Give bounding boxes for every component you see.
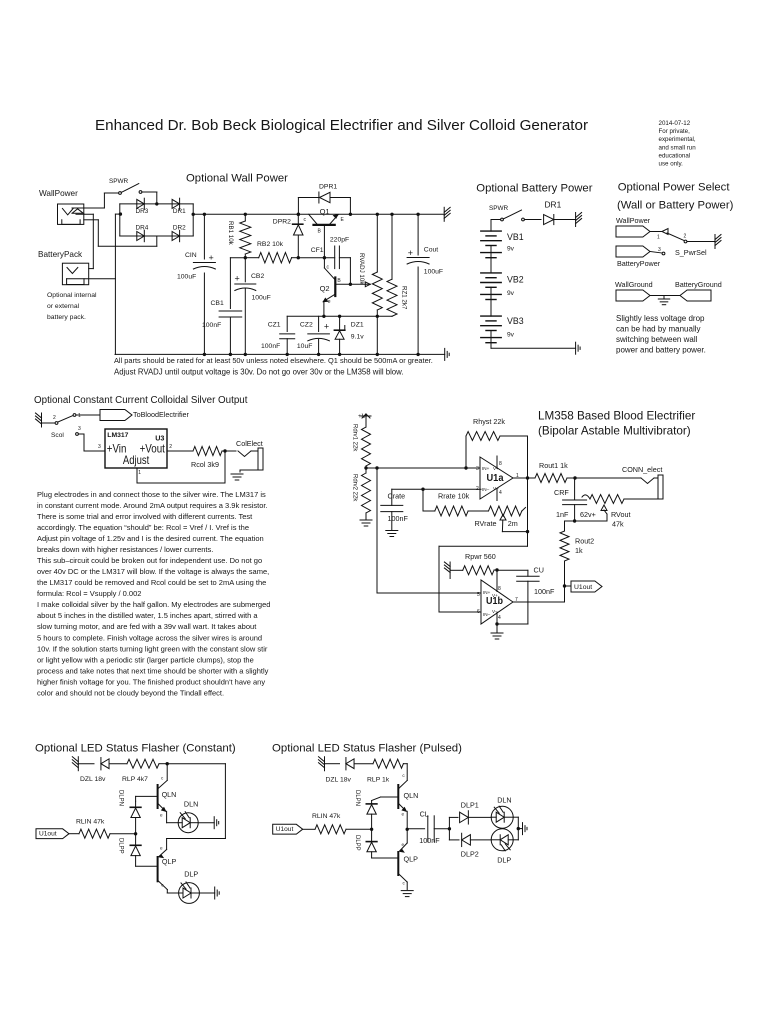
svg-text:DLPP: DLPP [354, 835, 360, 851]
svg-text:1: 1 [78, 413, 81, 419]
svg-text:10uF: 10uF [297, 343, 313, 350]
svg-text:QLN: QLN [162, 790, 177, 799]
svg-text:QLP: QLP [404, 855, 419, 864]
svg-text:RZ1 2k7: RZ1 2k7 [401, 286, 408, 310]
svg-text:1nF: 1nF [556, 510, 569, 519]
svg-text:e: e [328, 299, 331, 305]
svg-text:slow turning motor, and are fe: slow turning motor, and are fed with a 3… [37, 622, 257, 631]
svg-text:U1out: U1out [39, 831, 57, 838]
svg-text:8: 8 [499, 461, 502, 467]
svg-text:VB1: VB1 [507, 232, 524, 242]
svg-text:1: 1 [657, 235, 660, 241]
svg-text:DLN: DLN [497, 795, 511, 804]
svg-text:100uF: 100uF [177, 274, 196, 281]
svg-text:CIN: CIN [185, 252, 197, 259]
svg-text:CRF: CRF [554, 488, 569, 497]
svg-text:DLP: DLP [497, 855, 511, 864]
svg-text:and small run: and small run [659, 144, 697, 151]
svg-text:SPWR: SPWR [109, 178, 129, 185]
svg-text:e: e [160, 846, 163, 851]
svg-text:Rrate 10k: Rrate 10k [438, 492, 470, 501]
svg-text:3: 3 [476, 466, 479, 472]
svg-text:2: 2 [53, 415, 56, 421]
svg-text:WallPower: WallPower [616, 216, 651, 225]
svg-text:ColElect: ColElect [236, 439, 263, 448]
svg-text:Plug electrodes in and connect: Plug electrodes in and connect those to … [37, 490, 266, 499]
svg-text:10v. If the solution starts tu: 10v. If the solution starts turning ligh… [37, 644, 268, 653]
svg-text:BatteryGround: BatteryGround [675, 280, 722, 289]
svg-text:DR3: DR3 [136, 208, 149, 215]
svg-text:RVout: RVout [611, 510, 630, 519]
svg-text:CU: CU [534, 566, 544, 575]
svg-text:All parts should be rated for: All parts should be rated for at least 5… [114, 356, 433, 365]
svg-text:IN–: IN– [483, 612, 491, 617]
svg-text:(Wall or Battery Power): (Wall or Battery Power) [617, 200, 734, 212]
svg-text:DZL 18v: DZL 18v [326, 777, 352, 784]
svg-text:formula: Rcol = Vsupply / 0.00: formula: Rcol = Vsupply / 0.002 [37, 589, 141, 598]
svg-text:+: + [324, 321, 329, 331]
svg-text:Rcol 3k9: Rcol 3k9 [191, 460, 219, 469]
svg-text:the LM317 could be removed and: the LM317 could be removed and Rcol coul… [37, 578, 266, 587]
svg-text:can be had by manually: can be had by manually [616, 325, 701, 334]
svg-text:process and take notes that ne: process and take notes that next time sh… [37, 666, 269, 675]
svg-text:CZ1: CZ1 [268, 321, 281, 328]
svg-text:3: 3 [98, 444, 101, 450]
svg-text:IN–: IN– [482, 487, 490, 492]
svg-text:9v: 9v [507, 290, 515, 297]
svg-text:e: e [402, 812, 405, 817]
svg-text:Rdrv1 22k: Rdrv1 22k [352, 424, 358, 452]
svg-text:47k: 47k [612, 520, 624, 529]
svg-text:2m: 2m [508, 519, 518, 528]
svg-text:100uF: 100uF [424, 269, 443, 276]
svg-text:RLIN 47k: RLIN 47k [76, 819, 105, 826]
svg-text:Scol: Scol [51, 432, 64, 439]
svg-text:BatteryPower: BatteryPower [617, 259, 661, 268]
svg-text:Crate: Crate [388, 492, 406, 501]
svg-text:accordingly. The equation “sho: accordingly. The equation “should” be: R… [37, 523, 249, 532]
svg-text:DR1: DR1 [545, 200, 562, 210]
svg-text:62v+: 62v+ [580, 510, 596, 519]
svg-text:RVADJ 10k: RVADJ 10k [358, 253, 365, 285]
svg-text:9v: 9v [507, 246, 515, 253]
svg-text:9.1v: 9.1v [351, 333, 364, 340]
svg-text:DLPN: DLPN [118, 790, 124, 806]
svg-text:QLP: QLP [162, 857, 177, 866]
svg-text:RLP 1k: RLP 1k [367, 777, 390, 784]
svg-text:Rhyst 22k: Rhyst 22k [473, 417, 505, 426]
svg-text:RLIN 47k: RLIN 47k [312, 813, 341, 820]
svg-text:CONN_elect: CONN_elect [622, 465, 662, 474]
svg-text:CB2: CB2 [251, 273, 264, 280]
svg-text:higher finish voltage for you.: higher finish voltage for you. The finis… [37, 677, 265, 686]
svg-text:DZ1: DZ1 [351, 321, 364, 328]
svg-text:power and battery power.: power and battery power. [616, 346, 706, 355]
svg-text:QLN: QLN [404, 791, 419, 800]
svg-text:use only.: use only. [659, 161, 684, 168]
svg-text:Optional LED Status Flasher (C: Optional LED Status Flasher (Constant) [35, 743, 236, 755]
svg-text:SPWR: SPWR [489, 205, 509, 212]
svg-text:over 40v DC or the LM317 will: over 40v DC or the LM317 will blow. If t… [37, 567, 269, 576]
svg-text:DPR1: DPR1 [319, 184, 337, 191]
svg-text:Optional Power Select: Optional Power Select [618, 181, 731, 193]
svg-text:LM358 Based Blood Electrifier: LM358 Based Blood Electrifier [538, 410, 695, 423]
svg-text:Adjust: Adjust [123, 453, 150, 467]
svg-text:educational: educational [659, 152, 691, 159]
svg-text:2: 2 [169, 444, 172, 450]
svg-text:100nF: 100nF [534, 587, 555, 596]
svg-text:e: e [160, 813, 163, 818]
svg-text:5 hours to complete. Finish vo: 5 hours to complete. Finish voltage acro… [37, 633, 262, 642]
svg-text:I make colloidal silver by the: I make colloidal silver by the half gall… [37, 600, 270, 609]
svg-text:breaks down with higher resist: breaks down with higher resistances / lo… [37, 545, 213, 554]
svg-text:100nF: 100nF [261, 343, 280, 350]
svg-text:U1out: U1out [574, 584, 592, 591]
svg-text:battery pack.: battery pack. [47, 314, 86, 321]
svg-text:IN+: IN+ [483, 590, 491, 595]
svg-text:or external: or external [47, 303, 80, 310]
svg-text:This sub–circuit could be brok: This sub–circuit could be broken out for… [37, 556, 262, 565]
svg-text:DLPN: DLPN [354, 790, 360, 806]
svg-text:Rdrv2 22k: Rdrv2 22k [352, 474, 358, 502]
svg-text:RLP 4k7: RLP 4k7 [122, 776, 148, 783]
svg-text:Enhanced Dr. Bob Beck Biologic: Enhanced Dr. Bob Beck Biological Electri… [95, 117, 588, 134]
svg-text:Slightly less voltage drop: Slightly less voltage drop [616, 314, 705, 323]
svg-text:100nF: 100nF [419, 836, 440, 845]
svg-text:2014-07-12: 2014-07-12 [659, 120, 691, 127]
svg-text:BatteryPack: BatteryPack [38, 250, 83, 259]
svg-text:9v: 9v [507, 332, 515, 339]
svg-text:Adjust RVADJ until output volt: Adjust RVADJ until output voltage is 30v… [114, 367, 404, 376]
svg-text:Optional Battery Power: Optional Battery Power [476, 182, 592, 194]
svg-text:Rpwr 560: Rpwr 560 [465, 552, 496, 561]
svg-text:V+: V+ [492, 593, 498, 598]
svg-text:4: 4 [498, 615, 501, 621]
svg-text:Optional Constant Current Coll: Optional Constant Current Colloidal Silv… [34, 395, 248, 406]
svg-text:VB2: VB2 [507, 275, 524, 285]
svg-text:DR4: DR4 [136, 224, 149, 231]
svg-text:LM317: LM317 [107, 432, 128, 439]
svg-text:100nF: 100nF [388, 514, 409, 523]
svg-text:CF1: CF1 [311, 247, 324, 254]
svg-text:220pF: 220pF [330, 236, 349, 243]
svg-text:RB1 10k: RB1 10k [227, 221, 234, 246]
svg-text:(Bipolar Astable Multivibrator: (Bipolar Astable Multivibrator) [538, 425, 691, 438]
svg-text:Rout1 1k: Rout1 1k [539, 461, 568, 470]
svg-text:DLP1: DLP1 [461, 801, 479, 810]
svg-text:DPR2: DPR2 [273, 219, 291, 226]
svg-text:There is some trial and error: There is some trial and error involved w… [37, 512, 253, 521]
svg-text:2: 2 [684, 234, 687, 240]
svg-text:DLP2: DLP2 [461, 850, 479, 859]
svg-text:For private,: For private, [659, 128, 691, 135]
svg-text:CB1: CB1 [211, 300, 224, 307]
svg-text:experimental,: experimental, [659, 136, 696, 143]
svg-text:WallPower: WallPower [39, 189, 78, 198]
svg-text:U1out: U1out [276, 826, 294, 833]
svg-text:switching between wall: switching between wall [616, 335, 698, 344]
svg-text:Optional LED Status Flasher (P: Optional LED Status Flasher (Pulsed) [272, 743, 462, 755]
svg-text:1: 1 [138, 470, 141, 476]
svg-text:DLN: DLN [184, 800, 198, 809]
svg-text:Adjust pin voltage of 1.25v an: Adjust pin voltage of 1.25v and I is the… [37, 534, 264, 543]
svg-text:in constant current mode. Arou: in constant current mode. Around 2mA out… [37, 501, 268, 510]
svg-text:ToBloodElectrifier: ToBloodElectrifier [133, 410, 190, 419]
svg-text:4: 4 [499, 490, 502, 496]
svg-text:about 5 inches in the distille: about 5 inches in the distilled water, 1… [37, 611, 258, 620]
svg-text:CZ2: CZ2 [300, 321, 313, 328]
svg-text:color and should not be cloudy: color and should not be cloudy beyond th… [37, 688, 224, 697]
svg-text:Optional internal: Optional internal [47, 292, 97, 299]
svg-text:DLPP: DLPP [118, 838, 124, 854]
svg-text:3: 3 [78, 426, 81, 432]
svg-text:Q2: Q2 [320, 284, 330, 293]
svg-text:8: 8 [498, 586, 501, 592]
svg-text:WallGround: WallGround [615, 280, 653, 289]
svg-text:U1a: U1a [487, 473, 504, 484]
svg-text:RB2 10k: RB2 10k [257, 241, 284, 248]
svg-text:VB3: VB3 [507, 316, 524, 326]
svg-text:Rout2: Rout2 [575, 537, 594, 546]
svg-text:1k: 1k [575, 546, 583, 555]
svg-text:S_PwrSel: S_PwrSel [675, 248, 707, 257]
svg-text:RVrate: RVrate [475, 519, 497, 528]
svg-text:IN+: IN+ [482, 466, 490, 471]
svg-text:100uF: 100uF [252, 295, 271, 302]
svg-text:DZL 18v: DZL 18v [80, 776, 106, 783]
svg-text:Cout: Cout [424, 246, 438, 253]
svg-text:or light yellow with a periodi: or light yellow with a periodic stir (la… [37, 655, 254, 664]
svg-text:+: + [235, 274, 240, 284]
svg-text:DLP: DLP [184, 869, 198, 878]
svg-text:Optional Wall Power: Optional Wall Power [186, 173, 288, 185]
